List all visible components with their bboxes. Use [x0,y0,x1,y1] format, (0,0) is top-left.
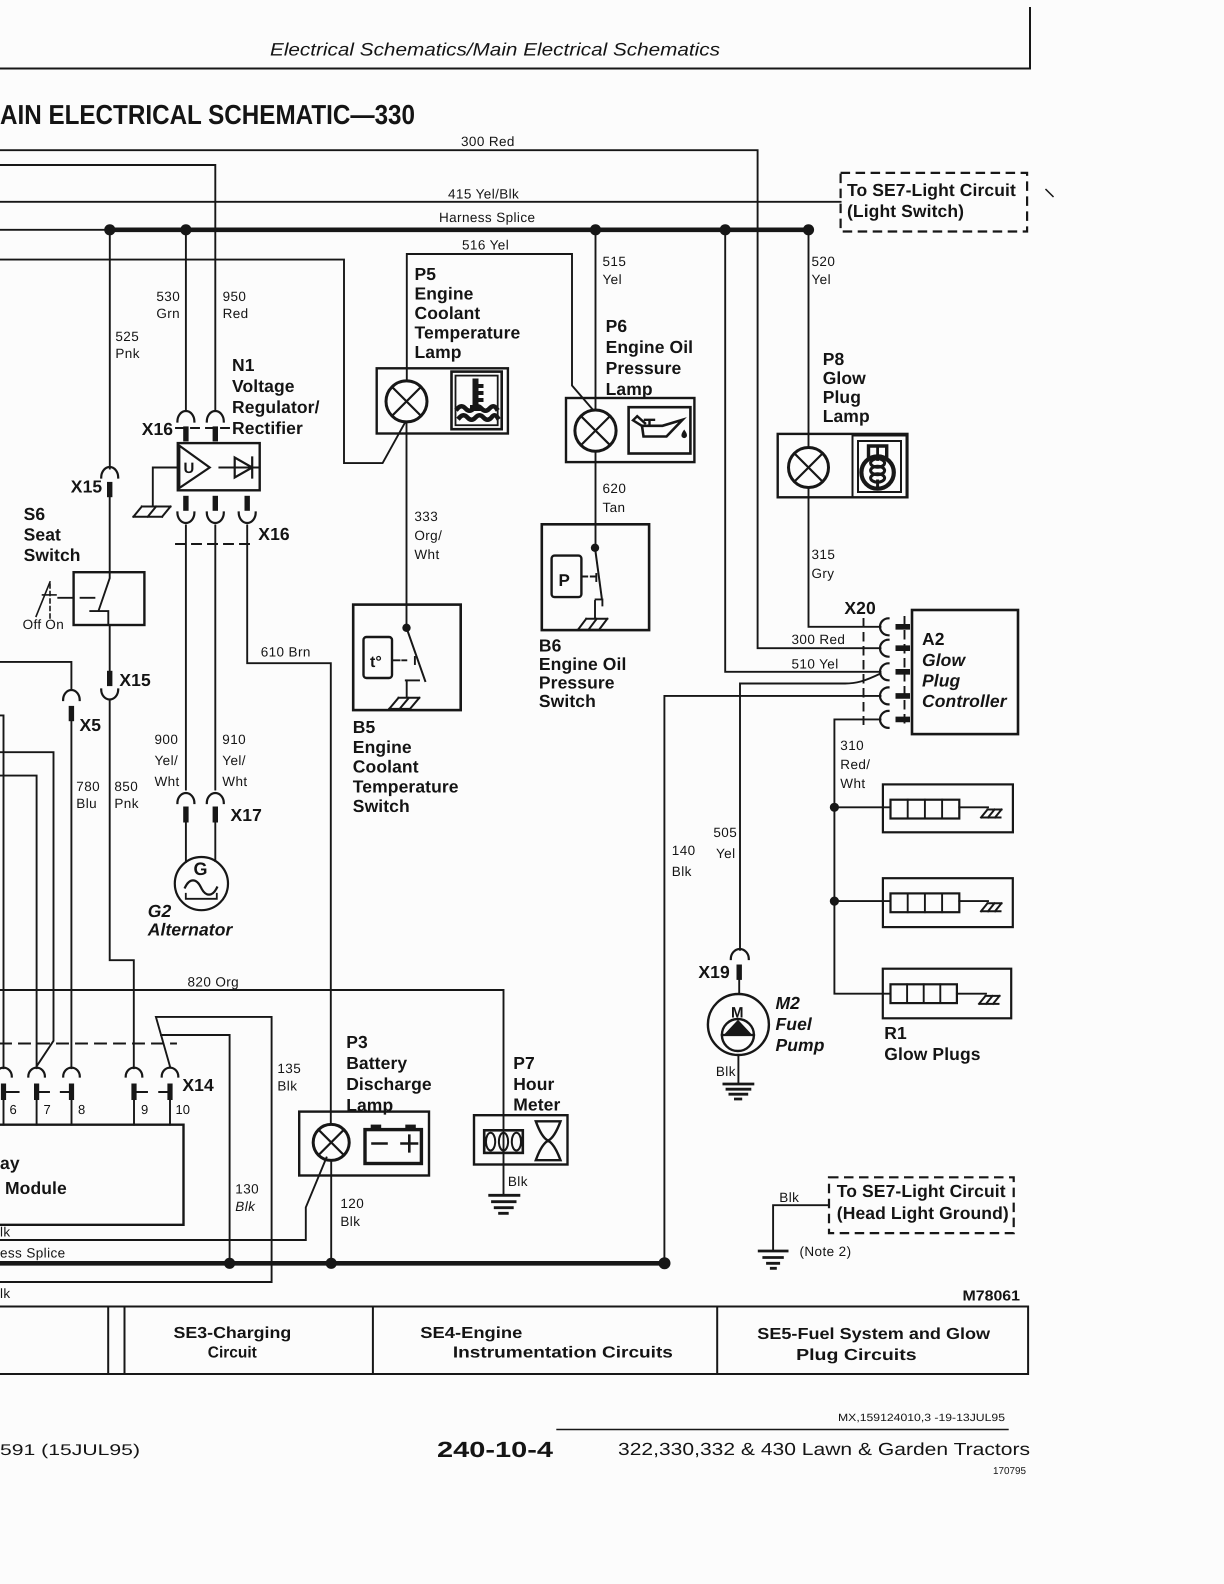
switch S6 left contact lead [58,597,73,599]
wire left entry to X14 pin7 via diagonal [0,752,54,1066]
svg-text:Pnk: Pnk [115,346,139,361]
header rule [0,68,1030,70]
svg-text:515: 515 [603,254,627,269]
alternator bottom bracket [186,894,217,899]
resistor R1 unit3 right lead [957,993,986,995]
glow plug R1 unit3 box [883,969,1011,1019]
stray scan tick [1046,190,1053,197]
oil pressure icon box [629,407,691,453]
svg-text:900: 900 [155,732,179,747]
glow plug icon bulb [861,456,893,488]
switch B6 contact tick [595,574,597,581]
wire unlabeled feed to P5 lamp [0,260,405,464]
svg-text:X19: X19 [698,962,730,982]
svg-text:510 Yel: 510 Yel [792,657,839,672]
svg-text:Off: Off [23,617,42,632]
connector X16 bottom arc pin1 [177,513,194,524]
wire X15 to S6 [109,497,111,572]
coolant temp icon waves [458,406,497,411]
off-on indicator arrow [36,582,50,616]
connector X14 pin7 bar [34,1084,39,1101]
svg-text:lk: lk [0,1286,11,1301]
svg-text:P3: P3 [346,1032,368,1052]
junction dot bus x725 [720,224,731,235]
wire 505 Yel X20 row3 to fuel pump [740,674,881,950]
svg-text:B5: B5 [353,717,376,737]
svg-text:Wht: Wht [155,774,180,789]
connector X15 lower pin [107,671,112,686]
lamp P5 box [377,368,508,433]
ground chassis B5 [389,698,419,709]
connector X20 arc row5 [880,711,889,728]
sensor link dashes B6 [582,576,596,578]
svg-text:(Head Light Ground): (Head Light Ground) [837,1203,1009,1223]
connector X14 arc pin10 [162,1068,179,1077]
ground chassis R1 unit2 [981,903,1002,911]
svg-text:M78061: M78061 [963,1289,1021,1305]
svg-text:Red/: Red/ [840,757,870,772]
off-on indicator crossbar [43,594,57,596]
svg-text:516 Yel: 516 Yel [462,238,509,253]
svg-text:U: U [184,460,195,477]
glow plug R1 unit2 box [883,878,1013,927]
svg-text:170795: 170795 [993,1466,1026,1477]
connector X14 pin ticks [6,1091,167,1093]
svg-text:MX,159124010,3 -19-13JUL95: MX,159124010,3 -19-13JUL95 [838,1412,1005,1424]
junction dot glow plug 2 [830,897,839,906]
svg-text:Hour: Hour [513,1074,554,1094]
connector X5 arc [63,690,80,700]
svg-text:Grn: Grn [156,306,180,321]
wire 780 Blu X5 to X14 pin8 [70,721,72,1068]
junction dot glow plug 1 [830,803,839,812]
svg-text:135: 135 [277,1061,301,1076]
svg-text:X15: X15 [71,477,103,497]
svg-text:Coolant: Coolant [353,757,419,777]
connector X16 top arc pin1 [177,411,194,422]
svg-text:7: 7 [44,1102,51,1117]
svg-text:X20: X20 [844,598,876,618]
lamp P3 circle [313,1124,349,1160]
connector X17 arc pin2 [207,793,224,803]
switch B5 ground lead [406,680,408,697]
wire 910 Yel/Wht N1 to X17 [214,526,216,790]
svg-text:Red: Red [223,306,249,321]
wire 525 Pnk bus to X15 [109,230,111,469]
connector X20 arc row1 [880,618,889,635]
lamp P8 box [778,434,908,497]
svg-text:ay: ay [0,1153,20,1173]
svg-text:310: 310 [840,738,864,753]
glow plug icon stem [876,481,879,489]
svg-text:Glow: Glow [823,368,866,388]
connector X16 top pin2 bar [213,426,218,441]
svg-text:Pnk: Pnk [114,796,138,811]
svg-text:Plug Circuits: Plug Circuits [796,1347,917,1364]
svg-text:Controller: Controller [922,691,1008,711]
svg-text:Blk: Blk [340,1214,360,1229]
coolant temp icon inner box [456,376,498,426]
svg-text:t°: t° [370,654,382,671]
resistor R1 unit1 right lead [959,806,988,808]
svg-text:SE3-Charging: SE3-Charging [174,1325,292,1342]
glow plug icon outer box [853,436,907,498]
svg-text:850: 850 [114,779,138,794]
svg-text:Lamp: Lamp [823,406,870,426]
wire 515 Yel bus to P6 lamp [595,230,597,410]
svg-text:Pressure: Pressure [539,673,615,693]
hour meter ground lead [503,1165,505,1196]
wire X19 to fuel pump [738,980,740,994]
connector X16 top arc pin2 [207,411,224,422]
connector X19 pin bar [737,965,742,980]
oil drip [681,430,687,439]
fuel pump chord [722,1034,754,1036]
svg-text:Blu: Blu [76,796,97,811]
svg-text:Blk: Blk [508,1174,528,1189]
wire left entry to X5 [0,662,71,690]
svg-text:333: 333 [414,509,438,524]
svg-text:SE5-Fuel System and Glow: SE5-Fuel System and Glow [757,1326,990,1343]
svg-text:X5: X5 [80,715,102,735]
switch S6 output elbow [90,611,108,625]
connector X17 arc pin1 [177,793,194,803]
oil can icon [642,420,683,437]
resistor R1 unit3 [891,984,957,1003]
svg-text:Instrumentation Circuits: Instrumentation Circuits [453,1345,673,1362]
svg-text:910: 910 [222,732,246,747]
wire 520 Yel bus to P8 lamp [808,230,810,448]
connector X20 arc row2 [880,640,889,657]
svg-text:Yel/: Yel/ [222,753,246,768]
wire 510 Yel bus to X20 row3 [725,230,880,672]
svg-text:240-10-4: 240-10-4 [437,1437,554,1462]
connector X16 bottom dashed line [176,543,252,545]
svg-text:lk: lk [0,1225,11,1240]
lamp P8 cross [794,453,822,481]
glow plug controller A2 box [912,610,1018,734]
switch B6 blade [595,548,602,598]
wire harness splice bus (thick) [110,228,808,233]
svg-text:Org/: Org/ [414,528,442,543]
svg-text:Wht: Wht [840,776,865,791]
switch B5 box [353,605,461,711]
svg-text:Alternator: Alternator [147,920,234,940]
svg-text:Switch: Switch [353,796,410,816]
glow plug icon inner box [858,441,901,492]
connector X14 pin6 bar [1,1084,6,1101]
svg-text:Voltage: Voltage [232,376,295,396]
svg-text:B6: B6 [539,636,562,656]
ground bus bottom (thick) [0,1261,665,1266]
connector X15 lower arc [101,690,118,700]
wire 130 Blk to ground bus [161,1035,230,1263]
connector X14 arc pin8 [63,1068,80,1077]
battery icon [365,1130,421,1164]
svg-text:Pressure: Pressure [606,358,682,378]
svg-text:525: 525 [115,329,139,344]
svg-text:Blk: Blk [277,1079,297,1094]
wire 300 Red top feed to X20 row2 [0,150,881,648]
svg-text:780: 780 [76,779,100,794]
switch S6 contact dash inside [81,597,95,599]
svg-text:Yel: Yel [603,272,622,287]
connector X16 bottom pin3 bar [245,496,250,511]
ground earth P7 [490,1195,519,1213]
svg-text:P7: P7 [513,1053,535,1073]
switch B5 contact tick [414,657,416,664]
glow plug R1 unit1 box [883,784,1013,832]
svg-text:(Light Switch): (Light Switch) [847,201,964,221]
relay module box [0,1125,184,1225]
junction dot bus x110 [104,224,115,235]
battery minus [373,1142,387,1145]
svg-text:SE4-Engine: SE4-Engine [420,1325,522,1342]
svg-text:Wht: Wht [222,774,247,789]
node B5 junction dot [402,624,410,632]
svg-text:Yel/: Yel/ [155,753,179,768]
ground earth note2 [759,1251,787,1268]
connector X5 pin [69,706,74,721]
svg-text:Coolant: Coolant [415,303,481,323]
wire 415 Yel/Blk to SE7 light circuit [0,201,841,203]
svg-text:8: 8 [78,1102,85,1117]
voltage regulator N1 box [178,443,260,490]
svg-text:Engine: Engine [415,284,474,304]
svg-text:Discharge: Discharge [346,1074,432,1094]
svg-text:P8: P8 [823,349,845,369]
resistor R1 unit2 right lead [959,900,988,902]
svg-text:Switch: Switch [24,545,81,565]
wire X17 to alternator G2 [186,823,215,863]
svg-text:Harness Splice: Harness Splice [439,210,535,225]
diode symbol [219,467,258,469]
connector X14 pin9 bar [131,1084,136,1101]
svg-text:Circuit: Circuit [208,1345,258,1362]
svg-text:610 Brn: 610 Brn [261,645,311,660]
svg-text:Regulator/: Regulator/ [232,397,320,417]
glow plug icon coil [871,459,885,467]
wire to glow plug 2 [834,900,890,902]
connector X16 bottom pin2 bar [213,496,218,511]
resistor R1 unit1 [891,800,960,819]
fuel pump inner triangle [724,1020,753,1035]
connector X16 top pin1 bar [183,426,188,441]
svg-text:P6: P6 [606,316,628,336]
connector X14 pin8 bar [69,1084,74,1101]
wire S6 to X15 lower [109,625,111,671]
wire 820 Org to P7 hour meter [0,990,504,1115]
svg-text:120: 120 [340,1196,364,1211]
fuel pump ground lead [737,1055,739,1084]
fuel pump M2 circle [708,994,769,1055]
svg-text:Plug: Plug [922,671,961,691]
alternator G2 circle [175,857,228,910]
odometer icon [484,1130,523,1153]
connector X14 arc pin7 [28,1068,45,1077]
svg-text:6: 6 [10,1102,17,1117]
footer section boxes [0,1307,1028,1375]
lamp P6 box [566,398,694,462]
svg-text:ess Splice: ess Splice [0,1246,66,1261]
page corner mark [1029,8,1031,69]
switch B5 hook [406,679,419,681]
svg-text:X14: X14 [182,1075,214,1095]
svg-text:P: P [559,571,570,590]
connector X20 dashed line left [863,619,865,724]
svg-text:Glow: Glow [922,650,966,670]
switch B6 ground lead [594,601,596,618]
wire left entry to X14 pin6 [0,715,4,1068]
svg-text:To SE7-Light Circuit: To SE7-Light Circuit [847,180,1016,200]
svg-text:G2: G2 [148,901,172,921]
svg-text:Tan: Tan [603,500,626,515]
svg-text:Electrical Schematics/Main Ele: Electrical Schematics/Main Electrical Sc… [270,40,720,60]
switch S6 blade [99,572,110,610]
wire left entry to X14 pin7 straight [0,776,37,1069]
svg-text:To SE7-Light Circuit: To SE7-Light Circuit [837,1181,1006,1201]
svg-text:Switch: Switch [539,691,596,711]
ground earth M2 [724,1084,753,1099]
svg-text:A2: A2 [922,629,945,649]
svg-text:591 (15JUL95): 591 (15JUL95) [0,1442,140,1459]
svg-text:950: 950 [223,289,247,304]
svg-text:Engine: Engine [353,737,412,757]
svg-text:9: 9 [141,1102,148,1117]
lamp P6 cross [581,416,610,445]
svg-text:(Note 2): (Note 2) [800,1244,852,1259]
junction dot bottom bus end [659,1257,671,1269]
svg-text:Blk: Blk [779,1190,799,1205]
lamp P3 box [299,1112,429,1176]
connector X20 arc row4 [880,687,889,704]
wire to glow plug 1 [834,806,890,808]
svg-text:P5: P5 [415,264,437,284]
svg-text:300 Red: 300 Red [792,632,846,647]
wire 850 Pnk X15 to X14 pin9 [110,700,134,1069]
wire 140 Blk X20 row4 to ground bus [664,696,880,1263]
svg-text:520: 520 [812,254,836,269]
svg-text:Rectifier: Rectifier [232,418,303,438]
connector X17 pin2 bar [213,807,218,823]
svg-text:315: 315 [812,547,836,562]
junction dot bus x186 [180,224,191,235]
svg-text:620: 620 [603,481,627,496]
pressure sensor box P [552,556,582,598]
lamp P6 circle [575,410,616,451]
lamp P8 circle [789,448,829,488]
svg-text:Pump: Pump [776,1035,825,1055]
temp sensor box t [364,637,393,678]
connector X20 pin bars [896,627,911,720]
wire 950 Red feed to N1 [0,165,215,411]
svg-text:Yel: Yel [716,846,735,861]
connector X17 pin1 bar [183,807,188,823]
svg-text:300 Red: 300 Red [461,134,515,149]
wire 120 Blk P3 to ground bus [330,1160,332,1263]
switch B5 blade [407,628,426,681]
svg-text:On: On [45,617,64,632]
hourglass icon [536,1121,561,1140]
connector X15 upper pin [107,482,112,497]
ground chassis B6 [578,619,607,630]
connector X16 top dashed line [176,427,236,429]
svg-text:Yel: Yel [812,272,831,287]
wire 530 Grn bus to N1 [185,230,187,411]
connector X16 bottom pin1 bar [183,496,188,511]
svg-text:Meter: Meter [513,1095,560,1115]
connector X16 bottom arc pin2 [207,513,224,524]
svg-text:Battery: Battery [346,1053,407,1073]
svg-text:M2: M2 [776,993,801,1013]
svg-text:Fuel: Fuel [776,1014,813,1034]
connector X20 dashed line right [904,617,906,726]
hour meter wire through [503,1115,505,1164]
connector X14 arc pin9 [126,1068,143,1077]
N1 ground lead [153,468,178,507]
ground chassis R1 unit3 [979,996,1000,1004]
svg-text:Plug: Plug [823,387,861,407]
svg-text:X16: X16 [142,419,174,439]
switch B6 hook [596,599,603,605]
connector X16 bottom arc pin3 [239,513,256,524]
svg-text:Wht: Wht [414,547,439,562]
svg-text:Engine Oil: Engine Oil [539,654,627,674]
dashed box To SE7-Light Circuit (Light Switch) [841,173,1028,232]
wire P3 lamp to splice (diagonal) [0,1158,327,1241]
connector X14 arc pin6 [0,1068,12,1077]
off-on indicator dashed stem [49,584,51,618]
wire 620 Tan P6 to B6 [595,451,597,548]
node B6 junction dot [591,544,599,552]
wire 135 Blk X14 pin10 jog [0,1017,272,1282]
battery plus [402,1136,418,1152]
lamp P5 cross [392,387,421,416]
svg-text:Seat: Seat [24,525,61,545]
svg-text:Engine Oil: Engine Oil [606,337,694,357]
svg-text:505: 505 [713,825,737,840]
svg-text:X17: X17 [231,805,262,825]
wire 900 Yel/Wht N1 to X17 [185,526,187,790]
coolant temp icon outer box [452,372,502,430]
svg-text:X15: X15 [119,670,151,690]
connector X14 pin10 bar [167,1084,172,1101]
svg-text:Lamp: Lamp [415,342,462,362]
svg-text:Temperature: Temperature [415,323,521,343]
switch B6 box [542,524,649,630]
ground chassis N1 [133,507,170,517]
wire 310 Red/Wht X20 row5 to glow plugs [834,719,890,993]
svg-text:S6: S6 [24,504,46,524]
junction dot bottom bus x331 [326,1258,337,1269]
lamp P3 cross [319,1130,344,1155]
junction dot bus x596 [590,224,601,235]
svg-text:Module: Module [5,1178,67,1198]
svg-text:Blk: Blk [672,864,692,879]
junction dot bottom bus x230 [224,1258,235,1269]
svg-text:N1: N1 [232,355,255,375]
wire 315 Gry P8 to X20 row1 [809,488,881,627]
wire 333 Org/Wht P5 to B5 [406,422,408,624]
wire 516 Yel P5 to P6 link [407,254,594,411]
connector X20 arc row3 [880,663,889,680]
wire Blk to head light ground [773,1205,829,1250]
svg-text:530: 530 [156,289,180,304]
coolant temp icon thermometer [470,379,484,412]
wire 610 Brn N1 to P3 lamp [247,526,331,1125]
connector X15 upper arc [101,467,118,477]
svg-text:Lamp: Lamp [606,379,653,399]
